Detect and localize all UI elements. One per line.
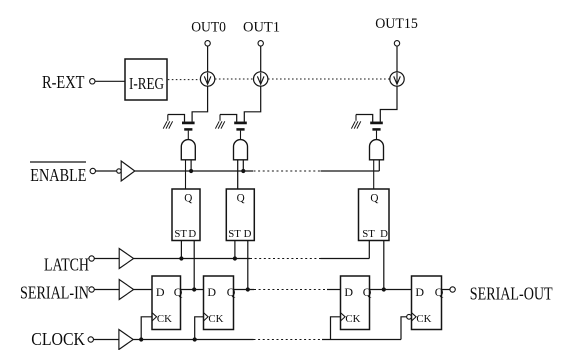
svg-text:CK: CK bbox=[345, 313, 360, 325]
wire AND A0 input leg to latch Q bbox=[185, 160, 187, 189]
label OUT0 bbox=[191, 20, 226, 36]
wire CLOCK riser to FF16 CK bbox=[401, 317, 407, 340]
label ENABLE with overline bbox=[30, 162, 87, 185]
label OUT15 bbox=[375, 16, 418, 32]
node ENABLE-AND0 junction bbox=[189, 169, 193, 173]
AND gate A15 bbox=[370, 140, 384, 160]
wire ENABLE pin to inverter bbox=[96, 170, 117, 172]
wire CLOCK riser to FF15 CK bbox=[331, 317, 341, 340]
latch block L0 bbox=[172, 189, 200, 241]
svg-text:Q: Q bbox=[237, 193, 245, 205]
clock wedge FF16 bbox=[412, 313, 417, 321]
node LATCH-ST0 junction bbox=[179, 256, 183, 260]
node CLOCK-FF1 junction bbox=[139, 337, 143, 341]
terminal OUT15 pin bbox=[394, 41, 399, 46]
wire dashed I-REG to current source V0 bbox=[168, 79, 201, 81]
wire AND A1 input leg to latch Q bbox=[237, 160, 239, 189]
flip-flop FF2 bbox=[204, 276, 236, 330]
inverter bubble ENABLE bbox=[117, 169, 121, 173]
transistor M0 gate bar bbox=[184, 128, 192, 131]
label R-EXT bbox=[42, 72, 85, 92]
wire latch L1 D to shift register Q bbox=[247, 241, 249, 290]
wire AND A0 input leg to ENABLE bus bbox=[190, 160, 192, 171]
wire transistor M0 source to substrate bbox=[168, 115, 185, 122]
hatch strokes bbox=[163, 115, 172, 129]
wire current source V0 to transistor drain bbox=[192, 86, 208, 121]
terminal OUT0 pin bbox=[205, 41, 210, 46]
svg-text:ENABLE: ENABLE bbox=[30, 165, 86, 185]
wire current source V1 to transistor drain bbox=[244, 86, 260, 121]
wire ENABLE bus solid left bbox=[135, 170, 253, 172]
flip-flop FF16 bbox=[412, 276, 444, 330]
wire SERIAL-IN pin to buffer bbox=[94, 289, 119, 291]
svg-text:D: D bbox=[380, 228, 388, 240]
wire ENABLE bus dashed bbox=[254, 170, 321, 172]
wire gate M1 to AND gate output bbox=[240, 131, 242, 140]
buffer triangle ENABLE bbox=[121, 161, 135, 181]
wire LATCH bus solid left bbox=[134, 258, 250, 260]
wire ENABLE bus solid right to AND15 input bbox=[321, 170, 380, 172]
node latch L15 D junction on serial wire bbox=[382, 287, 386, 291]
svg-text:Q: Q bbox=[435, 285, 444, 299]
clock wedge FF2 bbox=[204, 313, 209, 321]
label OUT1 bbox=[243, 20, 280, 36]
node ENABLE-AND1 junction bbox=[241, 169, 245, 173]
transistor M0 channel bar bbox=[182, 122, 195, 125]
node CLOCK-FF2 junction bbox=[193, 337, 197, 341]
hatch strokes bbox=[351, 115, 360, 129]
wire dashed current source V0 to V1 bbox=[215, 78, 254, 80]
svg-text:ST: ST bbox=[362, 228, 375, 240]
terminal ENABLE pin bbox=[90, 168, 95, 173]
wire R-EXT to I-REG bbox=[95, 80, 125, 82]
terminal SERIAL-OUT pin bbox=[450, 287, 455, 292]
wire CLOCK bus solid right bbox=[322, 339, 401, 341]
wire CLOCK bus dashed bbox=[254, 339, 323, 341]
svg-text:D: D bbox=[156, 285, 165, 299]
wire SERIAL-IN buffer to FF1 D bbox=[134, 289, 152, 291]
wire FF2 Q rightward (solid then dashed continuation) bbox=[234, 289, 255, 291]
svg-text:Q: Q bbox=[363, 285, 372, 299]
svg-text:R-EXT: R-EXT bbox=[42, 72, 85, 92]
wire FF1 Q to FF2 D bbox=[181, 289, 204, 291]
inverter bubble FF16 CK bbox=[407, 314, 412, 319]
terminal OUT1 pin bbox=[258, 41, 263, 46]
wire FF16 Q to SERIAL-OUT terminal bbox=[442, 289, 450, 291]
node latch L0 D junction on serial wire bbox=[192, 287, 196, 291]
wire latch L0 ST to LATCH bus bbox=[180, 241, 182, 259]
svg-text:Q: Q bbox=[174, 285, 183, 299]
wire serial into FF15 D bbox=[327, 289, 341, 291]
wire current source V15 to transistor drain bbox=[380, 86, 397, 121]
wire LATCH pin to buffer bbox=[94, 258, 119, 260]
svg-text:D: D bbox=[415, 285, 424, 299]
clock wedge FF15 bbox=[341, 313, 346, 321]
transistor M15 gate bar bbox=[372, 128, 380, 131]
buffer triangle LATCH bbox=[119, 249, 133, 269]
svg-text:D: D bbox=[244, 228, 252, 240]
latch block L15 bbox=[359, 189, 390, 241]
transistor M15 channel bar bbox=[370, 122, 383, 125]
label SERIAL-OUT bbox=[470, 284, 553, 304]
svg-text:CK: CK bbox=[157, 313, 172, 325]
node LATCH-ST1 junction bbox=[233, 256, 237, 260]
svg-text:OUT0: OUT0 bbox=[191, 20, 226, 36]
flip-flop FF15 bbox=[341, 276, 372, 330]
AND gate A0 bbox=[181, 140, 195, 160]
wire LATCH bus dashed bbox=[250, 258, 321, 260]
current source V1 (circle with down arrow) bbox=[254, 72, 268, 86]
svg-text:D: D bbox=[207, 285, 216, 299]
svg-text:ST: ST bbox=[174, 228, 187, 240]
wire OUT0 pin to current source bbox=[207, 46, 209, 72]
wire OUT1 pin to current source bbox=[260, 46, 262, 72]
wire gate M0 to AND gate output bbox=[187, 131, 189, 140]
svg-text:SERIAL-IN: SERIAL-IN bbox=[20, 283, 89, 303]
svg-text:SERIAL-OUT: SERIAL-OUT bbox=[470, 284, 553, 304]
wire dashed current source V1 to V15 bbox=[268, 78, 390, 80]
terminal CLOCK pin bbox=[88, 337, 93, 342]
wire serial dashed continuation bbox=[254, 289, 327, 291]
svg-text:D: D bbox=[188, 228, 196, 240]
svg-text:ST: ST bbox=[228, 228, 241, 240]
buffer triangle CLOCK bbox=[119, 330, 133, 350]
svg-text:OUT15: OUT15 bbox=[375, 16, 418, 32]
current source V0 (circle with down arrow) bbox=[200, 72, 214, 86]
current source V15 (circle with down arrow) bbox=[390, 72, 404, 86]
wire AND A1 input leg to ENABLE bus bbox=[242, 160, 244, 171]
terminal R-EXT pin bbox=[90, 79, 95, 84]
label LATCH bbox=[44, 255, 89, 275]
wire latch L15 D to shift register Q bbox=[383, 241, 385, 290]
block I-REG current regulator bbox=[125, 59, 167, 100]
wire LATCH bus solid right to latch15 ST bbox=[321, 258, 370, 260]
terminal SERIAL-IN pin bbox=[89, 287, 94, 292]
svg-text:I-REG: I-REG bbox=[129, 74, 164, 93]
hatch strokes bbox=[215, 115, 224, 129]
svg-text:CK: CK bbox=[208, 313, 223, 325]
svg-text:CK: CK bbox=[416, 313, 431, 325]
svg-text:Q: Q bbox=[227, 285, 236, 299]
terminal LATCH pin bbox=[89, 256, 94, 261]
AND gate A1 bbox=[234, 140, 248, 160]
wire transistor M1 source to substrate bbox=[220, 115, 237, 122]
svg-text:OUT1: OUT1 bbox=[243, 20, 280, 36]
svg-text:D: D bbox=[344, 285, 353, 299]
label CLOCK bbox=[31, 329, 85, 349]
wire CLOCK pin to buffer bbox=[94, 339, 119, 341]
flip-flop FF1 bbox=[152, 276, 183, 330]
wire FF15 Q to FF16 D bbox=[370, 289, 412, 291]
wire CLOCK riser to FF2 CK bbox=[195, 317, 204, 340]
wire CLOCK riser to FF1 CK bbox=[141, 317, 152, 340]
wire gate M15 to AND gate output bbox=[376, 131, 378, 140]
label SERIAL-IN bbox=[20, 283, 89, 303]
wire latch L1 ST to LATCH bus bbox=[234, 241, 236, 259]
clock wedge FF1 bbox=[152, 313, 157, 321]
svg-text:Q: Q bbox=[184, 193, 192, 205]
wire latch L15 ST to LATCH bus bbox=[368, 241, 370, 259]
wire OUT15 pin to current source bbox=[396, 46, 398, 72]
latch block L1 bbox=[226, 189, 254, 241]
buffer triangle SERIAL-IN bbox=[119, 280, 133, 300]
wire CLOCK bus solid left bbox=[133, 339, 253, 341]
wire transistor M15 source to substrate bbox=[356, 115, 373, 122]
svg-text:Q: Q bbox=[370, 193, 378, 205]
svg-text:CLOCK: CLOCK bbox=[31, 329, 85, 349]
wire AND A15 input leg to latch Q bbox=[373, 160, 375, 189]
node latch L1 D junction on serial wire bbox=[246, 287, 250, 291]
transistor M1 gate bar bbox=[236, 128, 244, 131]
transistor M1 channel bar bbox=[234, 122, 247, 125]
wire AND A15 input leg to ENABLE bus bbox=[378, 160, 380, 171]
svg-text:LATCH: LATCH bbox=[44, 255, 89, 275]
wire latch L0 D to shift register Q bbox=[193, 241, 195, 290]
